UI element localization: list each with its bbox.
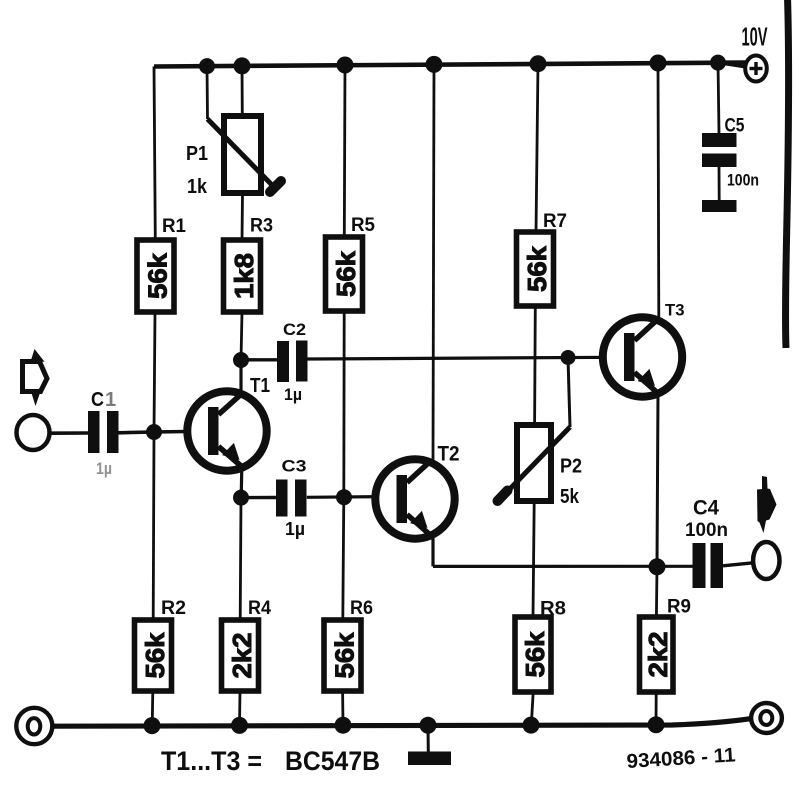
junction top rail P1 wiper (199, 58, 215, 74)
junction bottom rail R8 (523, 717, 540, 734)
wire R1 top (col A) (154, 67, 155, 241)
wire rail to T2 collector (433, 64, 434, 459)
junction top rail R5 (337, 57, 354, 74)
wire node C to C3 (241, 496, 276, 500)
wire rail to R5 top (343, 65, 347, 237)
svg-text:P2: P2 (560, 456, 582, 478)
junction top rail T3 (650, 55, 667, 72)
node P2 wiper top (561, 350, 576, 365)
resistor R1 (137, 240, 174, 312)
svg-text:R6: R6 (350, 598, 373, 619)
junction top rail T2 (426, 56, 443, 73)
resistor R8 (515, 617, 551, 692)
svg-text:1µ: 1µ (96, 459, 112, 478)
junction top rail C5 (710, 55, 726, 71)
svg-text:T2: T2 (438, 443, 460, 466)
ground symbol bottom (408, 752, 451, 766)
wire R1 bottom to input node (154, 312, 155, 432)
junction bottom rail R6 (335, 717, 352, 734)
wire input node to R2 top (152, 432, 156, 620)
svg-text:T1...T3 =: T1...T3 = (161, 746, 262, 776)
input terminal circle (17, 415, 50, 450)
wire R9 bottom to rail (655, 692, 658, 725)
ground bar below C5 (702, 200, 737, 212)
output terminal circle (753, 542, 779, 579)
capacitor C1 (88, 411, 119, 453)
wire T1 emitter to node C (240, 467, 244, 498)
capacitor C3 (276, 480, 307, 517)
wire C4 to output terminal (723, 563, 753, 566)
wire node D to R6 top (343, 497, 344, 620)
svg-text:P1: P1 (186, 143, 208, 165)
wire C3 to T2 base (307, 495, 407, 499)
wire top supply rail (154, 63, 745, 67)
potentiometer P1 (208, 116, 282, 193)
wire R6 bottom to rail (341, 691, 344, 725)
node D T2 base (336, 489, 352, 505)
wire R7 bottom to P2 top (533, 306, 537, 425)
wire node E to R9 top (655, 567, 658, 617)
wire node B to C2 (241, 358, 277, 361)
svg-text:100n: 100n (685, 519, 728, 541)
wire rail to plus terminal (718, 63, 745, 67)
capacitor C5 (702, 133, 737, 167)
scan edge artifact right (785, 0, 788, 348)
wire T3 collector to rail (657, 63, 661, 318)
resistor R2 (135, 620, 172, 691)
capacitor C4 (693, 543, 724, 588)
bottom left terminal (16, 708, 52, 744)
wire P1 wiper riser (206, 66, 209, 119)
junction bottom rail ground (420, 717, 437, 734)
svg-text:R1: R1 (162, 216, 186, 237)
wire node B to T1 collector (239, 360, 242, 392)
svg-text:T1: T1 (250, 375, 270, 397)
resistor R9 (640, 617, 674, 692)
svg-text:56k: 56k (330, 632, 360, 679)
svg-text:10V: 10V (742, 22, 768, 52)
bottom right terminal (751, 703, 782, 733)
input arrow (23, 349, 48, 406)
svg-text:2k2: 2k2 (643, 632, 673, 678)
svg-text:R9: R9 (667, 597, 691, 618)
svg-text:1: 1 (105, 389, 116, 411)
resistor R5 (326, 237, 363, 311)
wire input node to T1 base (154, 431, 219, 432)
resistor R7 (517, 232, 554, 306)
wire bottom ground rail (52, 719, 751, 727)
wire C2 to T3 base (307, 357, 634, 359)
wire ground stub bottom (427, 726, 430, 753)
output arrow (757, 476, 777, 533)
svg-text:56k: 56k (331, 250, 361, 297)
plus supply terminal (745, 56, 767, 82)
wire rail to R7 top (536, 64, 538, 232)
svg-text:5k: 5k (560, 486, 580, 508)
svg-text:C: C (91, 389, 104, 411)
svg-text:56k: 56k (520, 631, 550, 678)
wire P1 top terminal (241, 66, 244, 116)
wire C1 to input node (119, 430, 155, 434)
svg-text:C2: C2 (283, 320, 306, 339)
wire C5 to ground bar (718, 167, 721, 200)
transistor T1 (187, 391, 266, 470)
wire R8 bottom to rail (531, 692, 533, 725)
svg-text:BC547B: BC547B (285, 746, 380, 776)
svg-text:100n: 100n (727, 172, 759, 190)
svg-text:1µ: 1µ (285, 519, 305, 539)
wire R2 bottom to rail (151, 691, 154, 726)
svg-text:C3: C3 (282, 457, 307, 476)
svg-text:R5: R5 (351, 215, 375, 236)
svg-text:R3: R3 (250, 216, 273, 237)
svg-text:1k8: 1k8 (229, 253, 259, 299)
svg-text:1k: 1k (187, 176, 208, 198)
node A input (146, 424, 162, 440)
svg-text:R7: R7 (543, 211, 567, 232)
wire node C to R4 top (239, 498, 243, 620)
potentiometer P2 (498, 425, 571, 501)
resistor R4 (222, 620, 259, 691)
node E emitter run R9 (649, 558, 666, 575)
junction top rail P1 (234, 57, 251, 74)
wire rail to C5 (718, 63, 719, 133)
wire R3 bottom to node B (241, 312, 242, 360)
junction bottom rail R2 (144, 717, 161, 734)
svg-text:R8: R8 (540, 599, 566, 620)
resistor R6 (324, 620, 361, 691)
wire T3 emitter down to node E (657, 392, 658, 567)
svg-text:T3: T3 (665, 302, 685, 320)
wire R4 bottom to rail (238, 691, 241, 725)
node C T1 emitter (233, 490, 249, 506)
junction bottom rail R4 (231, 717, 248, 734)
wire P2 wiper riser (568, 358, 570, 428)
wire P1 bottom to R3 (241, 193, 244, 240)
svg-text:1µ: 1µ (284, 385, 302, 404)
svg-text:R4: R4 (248, 598, 271, 619)
junction bottom rail R9 (648, 716, 665, 733)
wire R5 bottom to node D (342, 311, 345, 497)
wire T2 emitter down (431, 538, 434, 566)
svg-text:2k2: 2k2 (227, 633, 257, 679)
node B T1 collector (233, 352, 249, 368)
svg-text:56k: 56k (522, 245, 552, 292)
transistor T2 (375, 459, 454, 538)
junction top rail R7 (530, 55, 547, 72)
wire P2 bottom to R8 top (533, 501, 534, 617)
wire input terminal to C1 (50, 431, 88, 435)
capacitor C2 (277, 341, 308, 383)
resistor R3 (224, 240, 261, 312)
svg-text:56k: 56k (143, 252, 173, 299)
transistor T3 (603, 317, 682, 396)
svg-text:R2: R2 (161, 598, 186, 619)
svg-text:C5: C5 (725, 116, 745, 137)
wire T2 emitter run to C4 (433, 565, 693, 568)
svg-text:56k: 56k (140, 632, 170, 679)
svg-text:C4: C4 (693, 497, 719, 520)
